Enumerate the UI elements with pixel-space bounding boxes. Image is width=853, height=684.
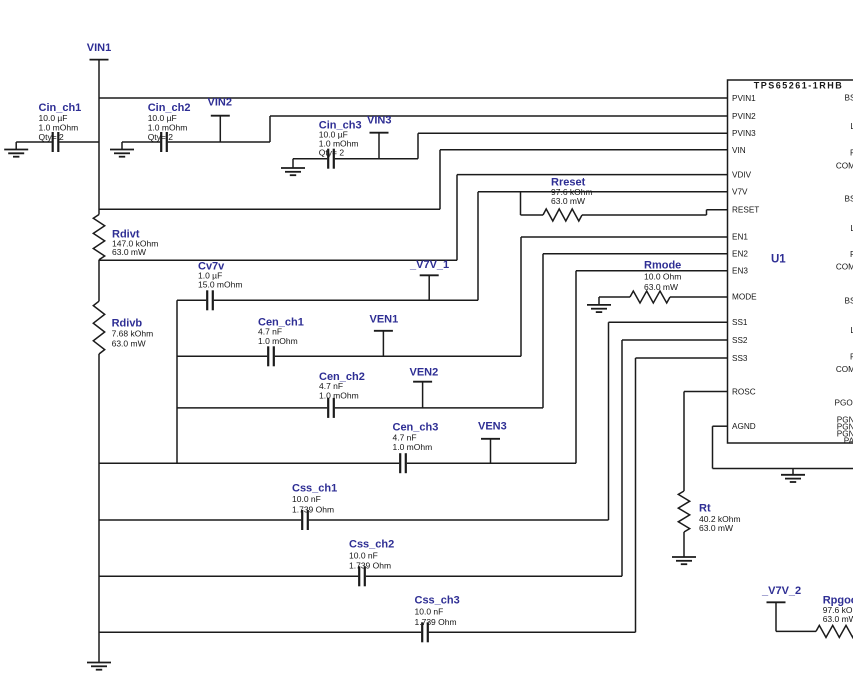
- svg-text:EN3: EN3: [732, 266, 748, 275]
- svg-text:TPS65261-1RHB: TPS65261-1RHB: [754, 81, 844, 91]
- resistor Rdivt: [93, 215, 104, 260]
- svg-text:COMP3: COMP3: [836, 365, 853, 374]
- svg-text:Css_ch2: Css_ch2: [349, 539, 394, 551]
- svg-text:PVIN3: PVIN3: [732, 129, 756, 138]
- wire VIN: [99, 208, 440, 210]
- svg-text:63.0 mW: 63.0 mW: [551, 196, 585, 206]
- svg-text:VIN3: VIN3: [367, 115, 391, 127]
- svg-text:1.0 mOhm: 1.0 mOhm: [39, 123, 79, 133]
- wire VDIV: [99, 259, 457, 261]
- wire PVIN2: [269, 116, 271, 142]
- wire PVIN1: [99, 97, 728, 99]
- capacitor Cin_ch3: [293, 158, 327, 160]
- wire V7V: [177, 299, 206, 301]
- svg-text:63.0 mW: 63.0 mW: [644, 282, 678, 292]
- svg-text:SS1: SS1: [732, 318, 748, 327]
- resistor Rt: [678, 491, 689, 532]
- svg-text:4.7 nF: 4.7 nF: [393, 433, 417, 443]
- svg-text:10.0 µF: 10.0 µF: [148, 113, 177, 123]
- svg-text:COMP2: COMP2: [836, 262, 853, 271]
- svg-text:VEN1: VEN1: [370, 314, 399, 326]
- svg-text:1.0 mOhm: 1.0 mOhm: [393, 442, 433, 452]
- wire AGND: [713, 425, 728, 427]
- svg-text:PGOOD: PGOOD: [835, 398, 853, 407]
- wire EN1: [520, 237, 522, 356]
- svg-text:15.0 mOhm: 15.0 mOhm: [198, 280, 242, 290]
- wire EN2: [542, 254, 544, 408]
- svg-text:Css_ch1: Css_ch1: [292, 483, 337, 495]
- wire PVIN3: [417, 133, 419, 158]
- wire ROSC: [684, 391, 728, 393]
- svg-text:1.0 mOhm: 1.0 mOhm: [258, 336, 298, 346]
- svg-text:Rmode: Rmode: [644, 260, 681, 272]
- wire SS2: [621, 340, 623, 576]
- svg-text:1.0 mOhm: 1.0 mOhm: [319, 390, 359, 400]
- node VIN2: [211, 115, 230, 117]
- svg-text:63.0 mW: 63.0 mW: [112, 247, 146, 257]
- svg-text:63.0 mW: 63.0 mW: [699, 523, 733, 533]
- node VEN3: [481, 438, 500, 440]
- svg-text:BST1: BST1: [845, 93, 853, 102]
- svg-text:1.0 mOhm: 1.0 mOhm: [148, 123, 188, 133]
- wire SS3: [635, 358, 637, 632]
- svg-text:BST3: BST3: [845, 296, 853, 305]
- svg-text:EN1: EN1: [732, 232, 748, 241]
- resistor Rpgood: [776, 630, 816, 632]
- svg-text:1.739 Ohm: 1.739 Ohm: [349, 561, 391, 571]
- svg-text:Qty= 2: Qty= 2: [148, 132, 174, 142]
- ground Rmode: [598, 297, 600, 305]
- svg-text:63.0 mW: 63.0 mW: [823, 614, 853, 624]
- capacitor Cen_ch3: [99, 462, 399, 464]
- svg-text:V7V: V7V: [732, 188, 748, 197]
- ground Cin_ch1: [15, 142, 17, 150]
- svg-text:RESET: RESET: [732, 206, 759, 215]
- svg-text:MODE: MODE: [732, 292, 757, 301]
- svg-text:10.0 µF: 10.0 µF: [39, 113, 68, 123]
- capacitor Cen_ch2: [177, 407, 327, 409]
- ground bottom-left: [87, 662, 111, 664]
- svg-text:Qty= 2: Qty= 2: [39, 132, 65, 142]
- wire EN3: [575, 271, 577, 463]
- svg-text:PVIN2: PVIN2: [732, 112, 756, 121]
- node VEN1: [374, 330, 393, 332]
- wire ground rail: [98, 354, 100, 663]
- svg-text:_V7V_1: _V7V_1: [409, 259, 449, 271]
- svg-text:VIN: VIN: [732, 146, 746, 155]
- wire VIN1 rail: [98, 98, 100, 215]
- wire SS1: [608, 322, 610, 520]
- svg-text:SS3: SS3: [732, 354, 748, 363]
- node VIN3: [370, 132, 389, 134]
- node _V7V_2: [767, 601, 786, 603]
- ground Cin_ch2: [121, 142, 123, 150]
- svg-text:VDIV: VDIV: [732, 170, 752, 179]
- capacitor Cv7v: [206, 290, 208, 310]
- svg-text:VEN2: VEN2: [410, 366, 439, 378]
- svg-text:VEN3: VEN3: [478, 421, 507, 433]
- capacitor Css_ch2: [99, 575, 358, 577]
- resistor Rreset: [520, 192, 522, 215]
- node VIN1: [90, 59, 109, 61]
- wire cap bus rail: [176, 300, 178, 463]
- svg-text:10.0 Ohm: 10.0 Ohm: [644, 272, 681, 282]
- node _V7V_1: [420, 274, 439, 276]
- svg-text:PVIN1: PVIN1: [732, 94, 756, 103]
- svg-text:1.739 Ohm: 1.739 Ohm: [415, 617, 457, 627]
- ground Rt: [672, 556, 696, 558]
- ground Cin_ch3: [292, 159, 294, 168]
- svg-text:COMP1: COMP1: [836, 161, 853, 170]
- capacitor Css_ch1: [99, 519, 301, 521]
- svg-text:EN2: EN2: [732, 249, 748, 258]
- svg-text:1.739 Ohm: 1.739 Ohm: [292, 504, 334, 514]
- svg-text:U1: U1: [771, 254, 786, 266]
- capacitor Css_ch3: [99, 631, 421, 633]
- node VEN2: [413, 381, 432, 383]
- svg-text:10.0 nF: 10.0 nF: [292, 494, 321, 504]
- svg-text:63.0 mW: 63.0 mW: [112, 339, 146, 349]
- svg-text:_V7V_2: _V7V_2: [761, 585, 801, 597]
- svg-text:SS2: SS2: [732, 336, 748, 345]
- svg-text:10.0 nF: 10.0 nF: [349, 550, 378, 560]
- ground AGND: [792, 469, 794, 475]
- resistor Rdivb: [98, 260, 100, 301]
- svg-text:AGND: AGND: [732, 422, 756, 431]
- svg-text:VIN2: VIN2: [208, 97, 232, 109]
- svg-text:BST2: BST2: [845, 194, 853, 203]
- svg-text:PAD: PAD: [844, 436, 853, 445]
- capacitor Cin_ch1: [16, 141, 52, 143]
- svg-text:VIN1: VIN1: [87, 42, 111, 54]
- IC U1 TPS65261-1RHB box: [728, 80, 853, 443]
- svg-text:Rt: Rt: [699, 503, 711, 515]
- svg-text:10.0 nF: 10.0 nF: [415, 607, 444, 617]
- capacitor Cin_ch2: [122, 141, 160, 143]
- resistor Rmode: [599, 296, 630, 298]
- svg-text:Css_ch3: Css_ch3: [415, 595, 460, 607]
- svg-text:ROSC: ROSC: [732, 387, 756, 396]
- svg-text:7.68 kOhm: 7.68 kOhm: [112, 329, 154, 339]
- capacitor Cen_ch1: [177, 355, 267, 357]
- svg-text:Qty= 2: Qty= 2: [319, 147, 345, 157]
